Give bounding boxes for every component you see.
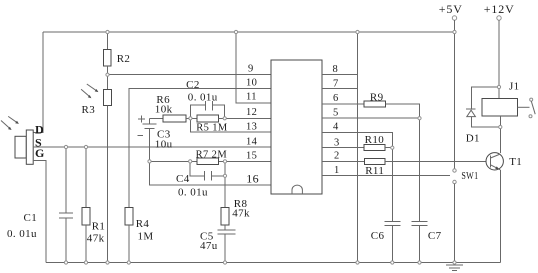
resistor R4	[125, 208, 154, 263]
+12V supply	[484, 2, 515, 98]
svg-text:10: 10	[246, 77, 257, 88]
svg-text:D1: D1	[466, 133, 480, 145]
transistor T1	[486, 153, 522, 170]
wire pin 5	[322, 117, 420, 119]
svg-text:G: G	[35, 146, 45, 160]
wire vertical x357 top to bottom	[357, 32, 359, 263]
junction top rail pin8 branch	[356, 30, 359, 33]
svg-text:4: 4	[333, 121, 339, 132]
junction R7/C4 right	[223, 160, 226, 163]
wire pin 10 and resistor R4	[129, 89, 271, 208]
wire S line to pin 14	[33, 146, 271, 148]
svg-text:0. 01u: 0. 01u	[188, 91, 218, 103]
wire pin 4	[322, 132, 392, 147]
resistor R1	[82, 147, 105, 263]
svg-text:0. 01u: 0. 01u	[178, 186, 208, 198]
wire pin 15 line	[150, 160, 272, 162]
svg-text:C7: C7	[428, 230, 442, 242]
svg-text:10k: 10k	[155, 104, 173, 116]
wire pin 7	[322, 88, 358, 90]
svg-text:C6: C6	[371, 230, 385, 242]
svg-text:+5V: +5V	[439, 2, 463, 16]
wire top +5V rail	[43, 31, 455, 33]
svg-text:T1: T1	[509, 156, 522, 168]
junction C4/R8	[223, 174, 226, 177]
svg-text:15: 15	[246, 151, 257, 162]
wire junction to T1 collector	[499, 127, 501, 153]
wire G down to bottom rail	[33, 160, 46, 262]
ground	[446, 265, 463, 271]
relay J1 coil	[482, 81, 520, 117]
svg-text:R3: R3	[82, 104, 96, 116]
resistor R9 on pin 6	[322, 92, 420, 119]
svg-text:C1: C1	[24, 212, 38, 224]
junction bottom rail C6	[391, 261, 394, 264]
resistor R6	[150, 94, 198, 122]
svg-text:R9: R9	[370, 92, 384, 104]
junction C3 bottom pin15 line	[148, 160, 151, 163]
junction R6/R5/C2 left	[189, 117, 192, 120]
resistor R11 on pin 2	[322, 159, 486, 177]
junction top rail R2	[106, 30, 109, 33]
svg-text:9: 9	[248, 64, 254, 75]
capacitor C3 (polarized)	[138, 116, 173, 162]
light arrows at R3	[81, 84, 98, 98]
junction bottom rail R3	[106, 261, 109, 264]
junction S line C1	[64, 145, 67, 148]
junction bottom rail R4	[127, 261, 130, 264]
wire pin 9	[108, 74, 272, 76]
svg-text:1: 1	[334, 165, 340, 176]
svg-text:1M: 1M	[138, 231, 154, 243]
svg-text:11: 11	[246, 92, 257, 103]
junction R7/C4 left	[189, 160, 192, 163]
junction bottom rail C7	[418, 261, 421, 264]
wire pin 16	[150, 161, 272, 185]
svg-text:12: 12	[246, 107, 257, 118]
svg-text:47k: 47k	[232, 207, 250, 219]
junction R10/pin4/C6	[391, 146, 394, 149]
svg-text:14: 14	[246, 136, 258, 147]
resistor R5	[196, 115, 271, 133]
diode D1	[466, 87, 501, 145]
photo sensor VT (D/S/G)	[15, 130, 33, 164]
wire +5V down to SW1	[454, 32, 456, 169]
svg-text:16: 16	[246, 171, 259, 185]
resistor R8	[221, 176, 250, 230]
wire pin 8 to top rail	[322, 74, 358, 76]
wire left rail down to sensor D	[33, 32, 43, 133]
svg-text:13: 13	[246, 122, 257, 133]
IC notch	[292, 185, 302, 194]
junction R9/pin5	[418, 117, 421, 120]
wire relay bottom to junction	[499, 116, 501, 127]
capacitor C1	[7, 147, 73, 263]
svg-text:47k: 47k	[87, 233, 105, 245]
wire bottom rail	[46, 262, 501, 264]
wire pin 11 from top rail	[236, 32, 271, 103]
svg-text:47u: 47u	[200, 240, 218, 252]
capacitor C6 branch	[371, 148, 401, 263]
svg-text:R1: R1	[92, 221, 106, 233]
capacitor C5	[200, 230, 236, 263]
junction R2/R3 pin9	[106, 73, 109, 76]
svg-text:0. 01u: 0. 01u	[7, 228, 37, 240]
junction top rail +5V	[453, 30, 456, 33]
capacitor C7 branch	[412, 118, 442, 262]
relay contact	[518, 98, 536, 118]
svg-text:2: 2	[334, 151, 340, 162]
wire pin 1	[322, 175, 450, 177]
svg-text:8: 8	[333, 64, 339, 75]
resistor R2	[104, 32, 131, 75]
capacitor C4	[176, 161, 225, 198]
junction top rail pin11 branch	[234, 30, 237, 33]
junction +12V/D1	[497, 85, 500, 88]
switch SW1	[453, 169, 479, 263]
junction bottom rail C1	[64, 261, 67, 264]
svg-text:R2: R2	[117, 53, 131, 65]
light arrows at sensor	[1, 116, 19, 130]
capacitor C2	[186, 79, 225, 118]
junction relay/D1/T1	[499, 125, 502, 128]
junction bottom rail C5	[223, 261, 226, 264]
svg-text:5: 5	[333, 107, 339, 118]
svg-text:3: 3	[334, 138, 340, 149]
svg-text:7: 7	[333, 79, 339, 90]
svg-text:C4: C4	[176, 173, 190, 185]
svg-text:J1: J1	[509, 81, 520, 93]
svg-text:C2: C2	[186, 79, 200, 91]
svg-text:R7 2M: R7 2M	[196, 150, 228, 161]
+5V supply	[439, 2, 463, 32]
resistor R10 on pin 3	[322, 134, 392, 151]
svg-text:R10: R10	[365, 134, 385, 146]
junction S line R1	[84, 145, 87, 148]
svg-text:6: 6	[333, 93, 339, 104]
resistor R3 (photoresistor)	[82, 75, 112, 263]
svg-text:10u: 10u	[155, 138, 173, 150]
junction bottom rail x357	[356, 261, 359, 264]
svg-text:SW1: SW1	[461, 170, 478, 182]
resistor R7	[196, 150, 228, 165]
junction bottom rail ground	[453, 261, 456, 264]
IC U1	[271, 60, 322, 194]
svg-text:+12V: +12V	[484, 2, 515, 16]
junction bottom rail R1	[84, 261, 87, 264]
junction R5/C2 right	[223, 117, 226, 120]
wire T1 emitter down to rail	[499, 170, 501, 263]
svg-text:R4: R4	[136, 218, 150, 230]
wire pin 13	[190, 118, 271, 132]
